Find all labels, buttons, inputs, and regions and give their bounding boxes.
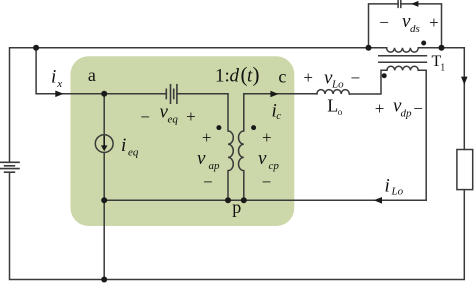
- svg-text:c: c: [278, 67, 286, 87]
- svg-text:+: +: [262, 128, 272, 147]
- svg-text:+: +: [303, 68, 313, 87]
- arrow i_x: [55, 91, 63, 98]
- svg-text:i: i: [121, 135, 126, 156]
- svg-text:dp: dp: [401, 108, 413, 120]
- svg-text:v: v: [197, 148, 206, 169]
- wire: v_ds snubber loop left/top/right: [369, 4, 442, 48]
- capacitor (v_ds) plates: [398, 0, 401, 7]
- arrow i_Lo (left): [374, 197, 382, 204]
- wire: below load box, bottom wire, left rail bottom: [10, 172, 465, 279]
- node: T1 primary right junction: [439, 45, 445, 51]
- svg-text:i: i: [385, 176, 390, 197]
- svg-text:p: p: [232, 197, 241, 217]
- node: top-left branch junction: [33, 45, 39, 51]
- wire: Lo to T1 secondary left terminal: [349, 70, 387, 94]
- svg-text:Lo: Lo: [331, 79, 344, 91]
- svg-text:i: i: [51, 67, 56, 88]
- node p left junction: [225, 197, 231, 203]
- svg-text:−: −: [140, 107, 150, 126]
- svg-text:1: 1: [440, 63, 445, 74]
- current source ieq circle: [95, 135, 113, 153]
- polarity dot T1 secondary: [382, 73, 387, 78]
- current arrows: [55, 1, 467, 204]
- polarity dot ideal transformer left: [216, 125, 221, 130]
- svg-text:+: +: [186, 107, 196, 126]
- arrow i_c: [270, 91, 278, 98]
- svg-text:v: v: [258, 148, 267, 169]
- svg-text:): ): [253, 63, 260, 87]
- arrow right rail (down): [461, 77, 468, 85]
- wire: branch from top wire down to node a, then to v_eq: [36, 48, 166, 94]
- transformer T1 secondary winding: [387, 66, 418, 70]
- svg-text:eq: eq: [128, 147, 139, 159]
- svg-text:+: +: [429, 13, 439, 32]
- svg-text:cp: cp: [269, 160, 280, 172]
- ideal transformer right winding (v_cp): [238, 94, 243, 201]
- wire: left rail + top wire to T1 primary: [10, 48, 387, 163]
- polarity dot ideal transformer right: [251, 125, 256, 130]
- node: bottom wire junction: [101, 277, 107, 283]
- wire: T1 secondary right terminal down to iLo wire: [418, 70, 426, 200]
- svg-text:ap: ap: [209, 160, 221, 172]
- current source ieq arrow: [101, 136, 108, 152]
- svg-text:Lo: Lo: [391, 186, 404, 198]
- node: T1 primary left junction: [366, 45, 372, 51]
- svg-text:−: −: [413, 99, 423, 118]
- svg-text:+: +: [202, 128, 212, 147]
- wire: v_eq to ideal transformer left winding: [177, 93, 228, 95]
- node p right junction: [241, 197, 247, 203]
- battery source (left): [0, 161, 19, 163]
- transformer T1 core lines: [379, 56, 427, 62]
- svg-text:−: −: [379, 13, 389, 32]
- arrow v_ds loop (left): [411, 1, 418, 7]
- transformer T1 primary winding: [387, 48, 419, 52]
- battery v_eq plates: [165, 89, 167, 98]
- svg-text:eq: eq: [168, 114, 179, 126]
- averaged switch model highlight region: [71, 56, 295, 226]
- wire: node c out to inductor Lo: [244, 93, 317, 95]
- svg-text:d: d: [230, 66, 240, 87]
- wire: top wire right of T1 primary, down right rail to load box: [418, 48, 464, 150]
- ideal transformer left winding (v_ap): [228, 94, 233, 201]
- svg-text:+: +: [375, 99, 385, 118]
- wire: ieq branch verticals: [103, 94, 105, 280]
- node: ieq to p-wire junction: [101, 197, 107, 203]
- svg-text:ds: ds: [410, 23, 420, 35]
- wire: p node / iLo horizontal wire: [104, 199, 426, 201]
- load resistor box: [457, 150, 473, 190]
- svg-text:L: L: [327, 95, 338, 115]
- svg-text:1:: 1:: [215, 66, 230, 87]
- svg-text:c: c: [276, 110, 281, 122]
- inductor Lo: [317, 90, 349, 94]
- node a junction: [101, 91, 107, 97]
- svg-text:−: −: [203, 173, 213, 192]
- svg-text:−: −: [351, 68, 361, 87]
- polarity dot T1 primary: [421, 41, 426, 46]
- svg-text:x: x: [56, 78, 62, 90]
- svg-text:a: a: [88, 65, 96, 85]
- svg-text:o: o: [338, 107, 343, 117]
- svg-text:−: −: [262, 173, 272, 192]
